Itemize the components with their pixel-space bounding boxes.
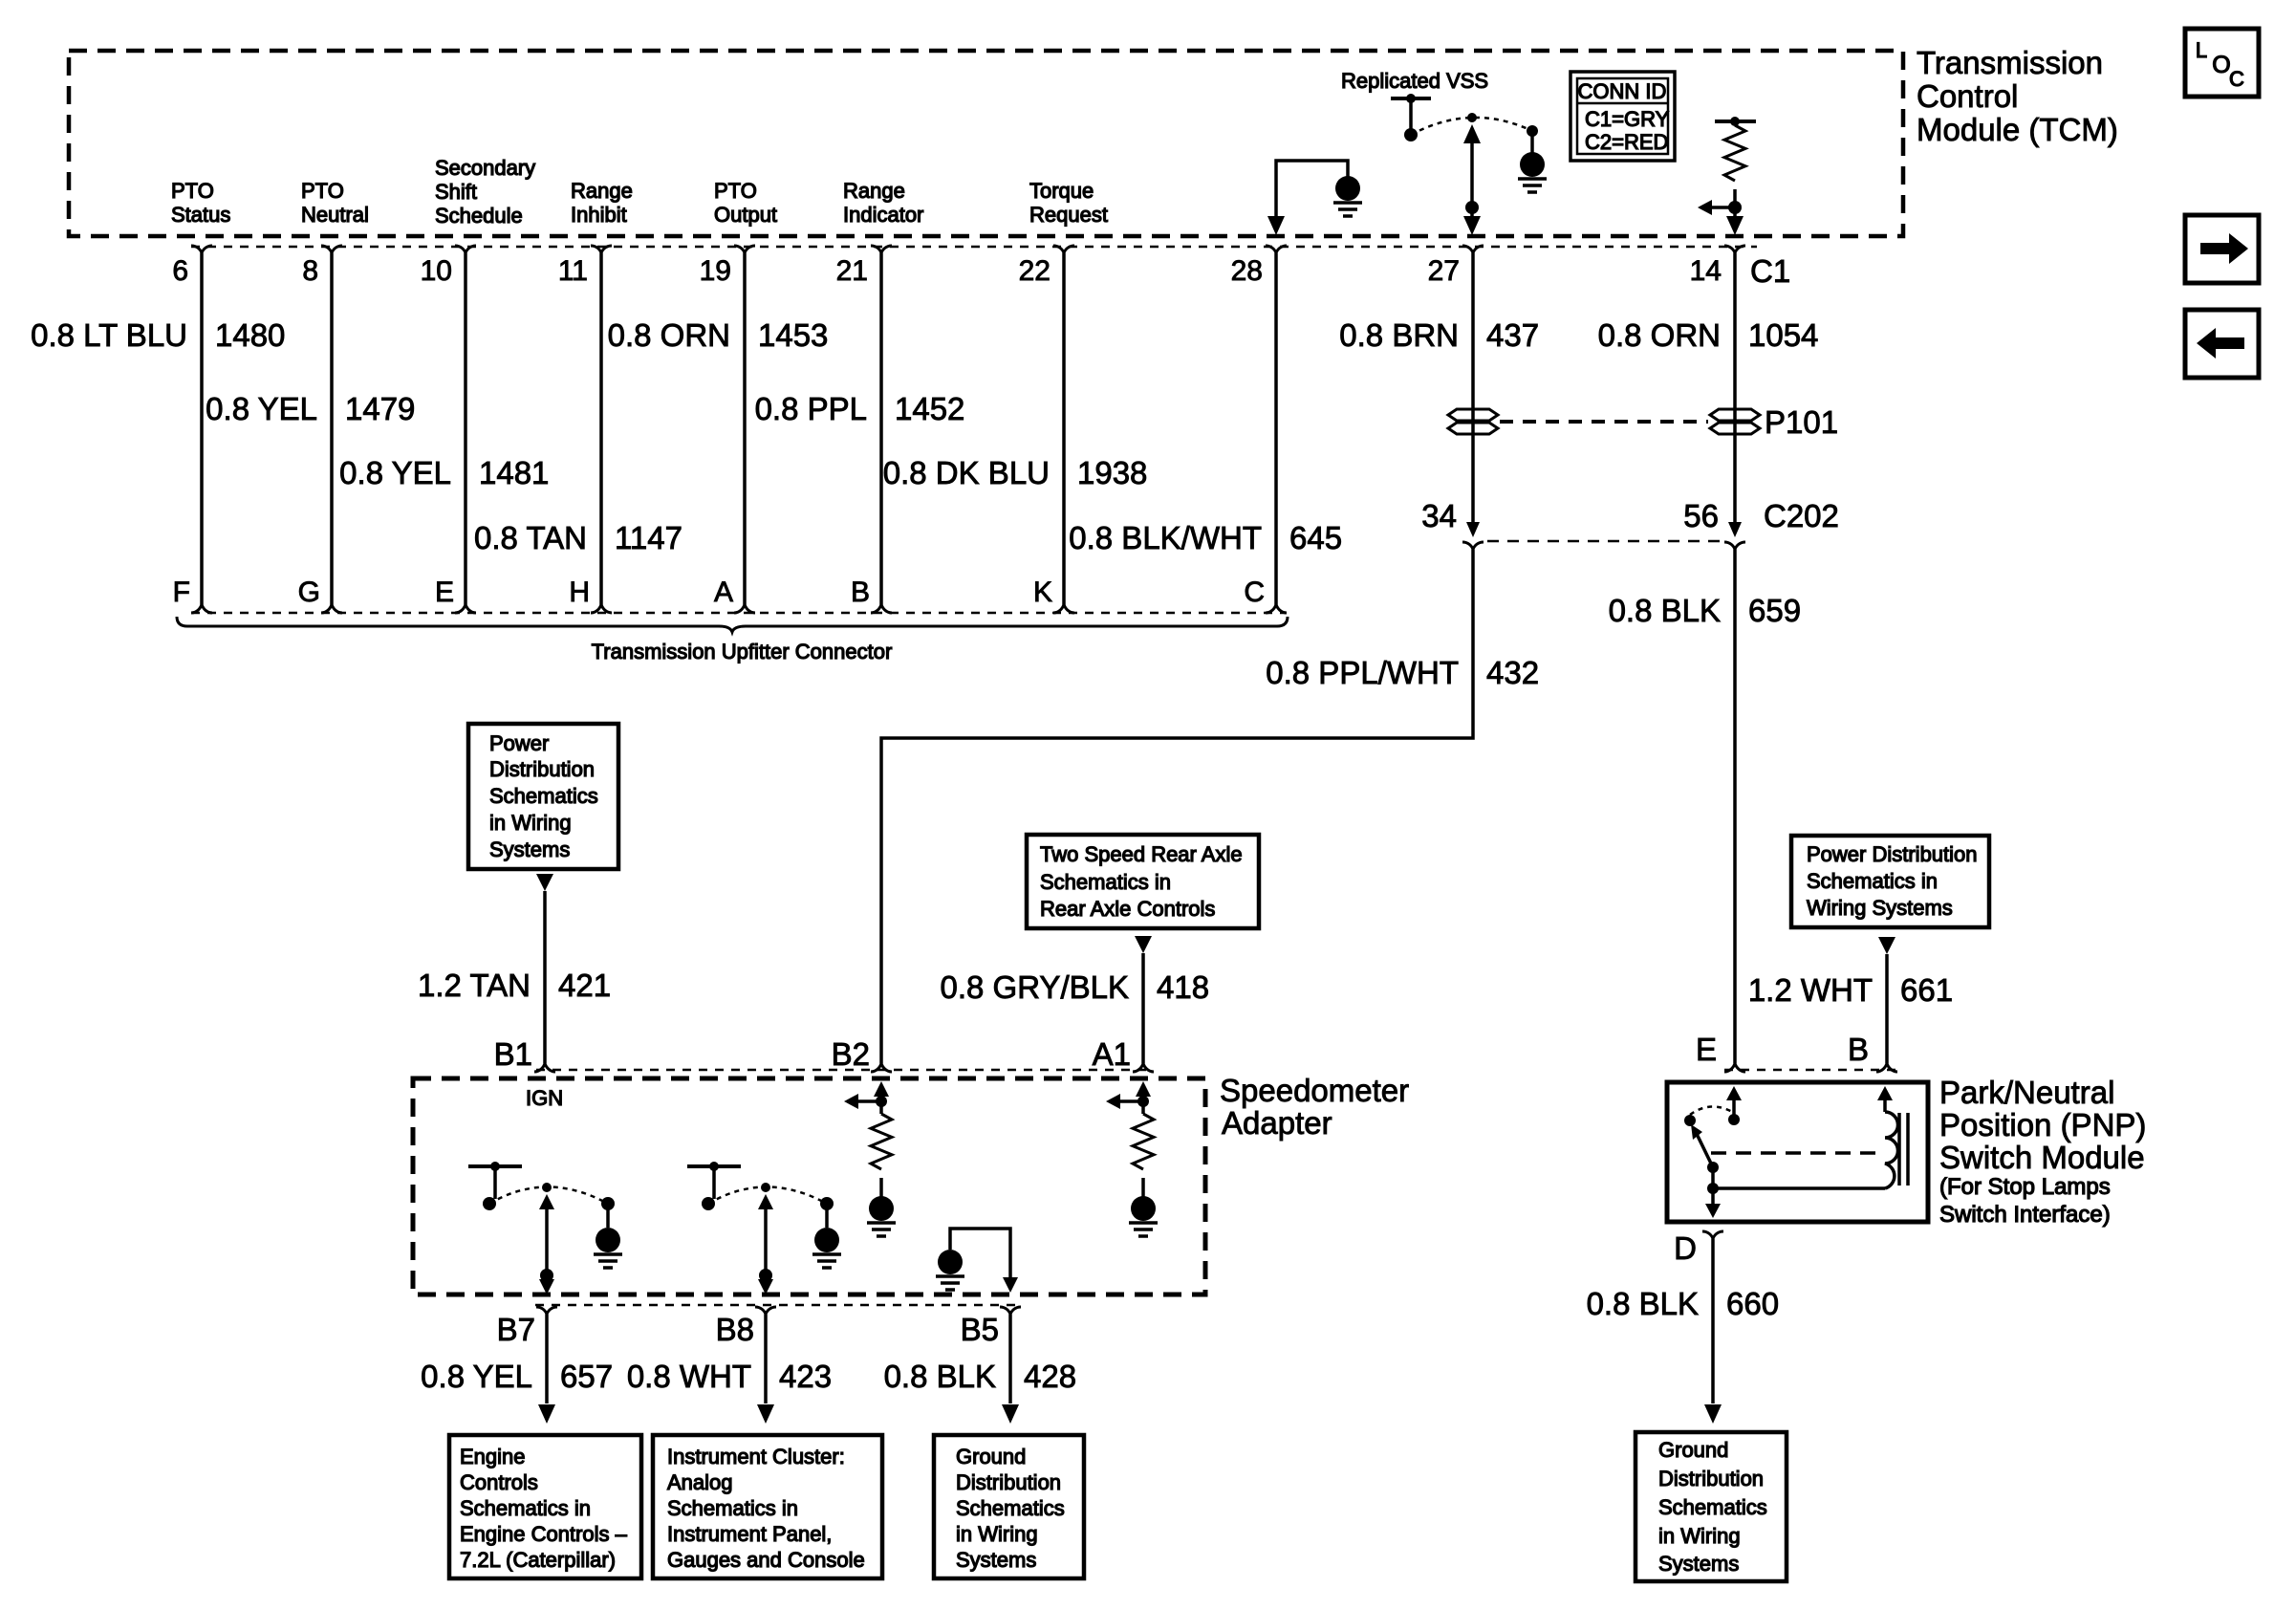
- svg-text:56: 56: [1683, 498, 1719, 533]
- connector: C202 pin 34 female Y: [1462, 542, 1484, 550]
- svg-text:Status: Status: [171, 203, 230, 227]
- svg-text:Distribution: Distribution: [1658, 1467, 1764, 1490]
- svg-text:0.8 YEL: 0.8 YEL: [206, 391, 317, 426]
- reference box: Power Distribution Schematics in Wiring Systems (left): [468, 724, 618, 869]
- svg-text:661: 661: [1900, 972, 1953, 1008]
- reference box: Power Distribution Schematics in Wiring Systems (right): [1791, 836, 1989, 927]
- node: lever pivot dot: [1707, 1162, 1719, 1173]
- wire: thin dashed Speedometer Adapter connector face line (top): [536, 1069, 1154, 1072]
- wire: up-arrow into module: [874, 1081, 889, 1097]
- wire: circuit 1054/659 from TCM pin 14 (0.8 ORN then 0.8 BLK): [1733, 253, 1737, 524]
- wire: stub from right dot to internal ground: [1530, 131, 1534, 153]
- wire: feed triangle from Two Speed Rear Axle box: [1135, 936, 1152, 953]
- wire: pin D down-arrow inside PNP: [1705, 1204, 1721, 1218]
- wire: feed triangle from right Power Distribution box: [1878, 937, 1895, 954]
- svg-text:Instrument Cluster:: Instrument Cluster:: [667, 1445, 845, 1469]
- wire: pin 27 double-ended arrow (up): [1463, 124, 1481, 143]
- wire: thin dashed PNP connector face line: [1724, 1069, 1897, 1072]
- wire: circuit 1453 from TCM pin 19 to upfitter pin A: [743, 253, 747, 604]
- connector pin 27 of TCM C1 (female Y): [1462, 246, 1484, 253]
- svg-text:27: 27: [1428, 255, 1460, 287]
- svg-text:1453: 1453: [758, 317, 828, 353]
- ground: internal ground: [814, 1228, 839, 1252]
- svg-text:B5: B5: [961, 1312, 999, 1347]
- label: pin 10 function Secondary Shift Schedule: [435, 156, 535, 228]
- wire: down-arrow to connector: [539, 1279, 554, 1295]
- wire: thin dashed upfitter connector face line (bottom): [191, 612, 1287, 615]
- wire: internal vertical: [879, 1089, 883, 1114]
- svg-text:Engine: Engine: [460, 1445, 526, 1469]
- wire: left signal arrow: [856, 1099, 881, 1103]
- wire: down-arrow to connector: [758, 1279, 773, 1295]
- wire: thin dashed C202 connector face line: [1487, 540, 1721, 543]
- svg-text:D: D: [1674, 1230, 1697, 1266]
- node: right arc end dot: [1527, 125, 1538, 137]
- node: right arc end dot: [601, 1197, 615, 1210]
- inductor: PNP coil winding: [1885, 1112, 1898, 1188]
- label: pin 21 function Range Indicator: [843, 179, 923, 227]
- svg-text:Systems: Systems: [1658, 1552, 1739, 1576]
- svg-text:B: B: [851, 577, 870, 608]
- wire: stub to internal ground: [606, 1208, 610, 1228]
- reference box: Ground Distribution Schematics in Wiring Systems (bottom middle): [934, 1435, 1084, 1578]
- svg-text:Replicated VSS: Replicated VSS: [1341, 69, 1488, 93]
- svg-text:1.2 WHT: 1.2 WHT: [1748, 972, 1873, 1008]
- svg-text:660: 660: [1726, 1286, 1779, 1321]
- reference box: Ground Distribution Schematics in Wiring Systems (right): [1635, 1432, 1787, 1581]
- svg-text:O: O: [2212, 52, 2230, 78]
- svg-text:P101: P101: [1765, 404, 1838, 440]
- label: TCM title: [1917, 45, 2118, 147]
- icon: arrow-left reference box: [2185, 310, 2259, 378]
- wire: pin 14 internal vertical below resistor: [1733, 189, 1737, 224]
- svg-text:IGN: IGN: [526, 1086, 563, 1110]
- connector pin B7 of Speedometer Adapter (bottom): [536, 1307, 557, 1315]
- resistor: internal pull-up on pin 14: [1715, 117, 1756, 181]
- label: pin 6 function PTO Status: [171, 179, 230, 227]
- wire: double arrow up: [539, 1194, 554, 1209]
- ground: internal ground on pin 28 branch: [1335, 176, 1360, 201]
- wire: pin E internal stub: [1732, 1093, 1736, 1115]
- connector pin A of Transmission Upfitter Connector: [734, 604, 755, 613]
- connector pin K of Transmission Upfitter Connector: [1053, 604, 1074, 613]
- svg-text:7.2L (Caterpillar): 7.2L (Caterpillar): [460, 1548, 616, 1572]
- wire: internal vertical to module edge: [764, 1202, 768, 1288]
- svg-text:Two Speed Rear Axle: Two Speed Rear Axle: [1040, 842, 1243, 866]
- svg-text:Systems: Systems: [489, 838, 570, 861]
- wire: circuit 659 (0.8 BLK) from C202-56 to PNP pin E: [1733, 550, 1737, 1063]
- reference box: Engine Controls Schematics in Engine Controls - 7.2L (Caterpillar): [449, 1435, 641, 1578]
- switch: relay contact T-bar: [468, 1162, 522, 1210]
- wire: double arrow up: [758, 1194, 773, 1209]
- node: junction dot: [876, 1096, 887, 1107]
- svg-text:B2: B2: [832, 1036, 870, 1072]
- connector pin B of PNP switch module: [1876, 1063, 1897, 1072]
- wire: pin E up-arrow inside PNP: [1726, 1086, 1742, 1100]
- svg-text:Range: Range: [843, 179, 905, 203]
- wire: circuit 1480 from TCM pin 6 to upfitter pin F: [200, 253, 204, 604]
- svg-text:PTO: PTO: [301, 179, 344, 203]
- wire: circuit 418 (0.8 GRY/BLK) to Speedometer Adapter A1: [1141, 953, 1145, 1063]
- wire: resistor to ground stub: [879, 1178, 883, 1197]
- wire: circuit 660 (0.8 BLK) from PNP pin D: [1711, 1239, 1715, 1403]
- svg-text:Distribution: Distribution: [956, 1470, 1061, 1494]
- resistor: internal pull-down: [1133, 1114, 1154, 1169]
- connector pin D of PNP switch module: [1702, 1231, 1723, 1239]
- svg-text:Analog: Analog: [667, 1470, 733, 1494]
- wire: circuit 657 (0.8 YEL) leaving Speedometer Adapter: [545, 1315, 549, 1403]
- svg-text:432: 432: [1486, 655, 1539, 690]
- svg-text:Ground: Ground: [956, 1445, 1026, 1469]
- svg-text:1938: 1938: [1077, 455, 1147, 490]
- svg-text:K: K: [1033, 577, 1052, 608]
- connector pin H of Transmission Upfitter Connector: [591, 604, 612, 613]
- module box: Park/Neutral Position (PNP) Switch Module: [1667, 1082, 1928, 1222]
- svg-text:Gauges and Console: Gauges and Console: [667, 1548, 865, 1572]
- svg-text:Power Distribution: Power Distribution: [1807, 842, 1978, 866]
- connector pin 14 of TCM C1 (female Y): [1724, 246, 1745, 253]
- svg-text:Shift: Shift: [435, 180, 477, 204]
- connector pin B8 of Speedometer Adapter (bottom): [755, 1307, 776, 1315]
- svg-text:10: 10: [421, 255, 452, 287]
- connector: C202 pin 34 male arrow: [1466, 522, 1480, 537]
- svg-text:Transmission: Transmission: [1917, 45, 2103, 80]
- connector: C202 pin 56 male arrow: [1728, 522, 1742, 537]
- svg-text:PTO: PTO: [714, 179, 757, 203]
- label: pin 11 function Range Inhibit: [571, 179, 633, 227]
- svg-text:19: 19: [700, 255, 731, 287]
- svg-text:C2=RED: C2=RED: [1585, 130, 1668, 154]
- connector pin 8 of TCM C1 (female Y): [321, 246, 342, 253]
- svg-text:0.8 WHT: 0.8 WHT: [627, 1359, 751, 1394]
- svg-text:0.8 ORN: 0.8 ORN: [608, 317, 730, 353]
- connector pin C of Transmission Upfitter Connector: [1266, 604, 1287, 613]
- svg-text:0.8 GRY/BLK: 0.8 GRY/BLK: [940, 969, 1129, 1005]
- wire: dashed linkage arc: [708, 1187, 827, 1205]
- wire: circuit 645 from TCM pin 28 to upfitter pin C: [1274, 253, 1278, 604]
- wire: pin 14 left signal arrow: [1711, 206, 1735, 209]
- connector pin 10 of TCM C1 (female Y): [455, 246, 476, 253]
- svg-text:Module (TCM): Module (TCM): [1917, 112, 2118, 147]
- connector pin B2 of Speedometer Adapter: [871, 1063, 892, 1072]
- connector: C202 pin 56 female Y: [1724, 542, 1745, 550]
- svg-text:0.8 BLK: 0.8 BLK: [884, 1359, 996, 1394]
- icon: arrow-right reference box: [2185, 215, 2259, 283]
- svg-text:Rear Axle Controls: Rear Axle Controls: [1040, 897, 1215, 921]
- connector pin 11 of TCM C1 (female Y): [591, 246, 612, 253]
- svg-text:Wiring Systems: Wiring Systems: [1807, 896, 1953, 920]
- wire: circuit 1479 from TCM pin 8 to upfitter pin G: [330, 253, 334, 604]
- node: junction dot on D wire: [1707, 1183, 1719, 1194]
- svg-text:Controls: Controls: [460, 1470, 538, 1494]
- svg-text:Secondary: Secondary: [435, 156, 535, 180]
- svg-text:0.8 BLK/WHT: 0.8 BLK/WHT: [1069, 520, 1262, 555]
- svg-text:B7: B7: [497, 1312, 535, 1347]
- svg-text:Position (PNP): Position (PNP): [1939, 1107, 2146, 1142]
- wire: thin dashed C1 connector face line (top): [191, 246, 1757, 249]
- svg-text:Inhibit: Inhibit: [571, 203, 627, 227]
- label: pin 8 function PTO Neutral: [301, 179, 369, 227]
- svg-text:B8: B8: [716, 1312, 754, 1347]
- connector: pass-through grommet P101 (right): [1710, 409, 1760, 421]
- ground: internal ground feeding B5: [938, 1250, 963, 1274]
- wire: circuit 661 (1.2 WHT) to PNP pin B: [1885, 954, 1889, 1063]
- svg-text:Schematics: Schematics: [1658, 1495, 1767, 1519]
- wire: thin dashed Speedometer Adapter connector face line (bottom): [535, 1304, 1023, 1307]
- connector pin E of PNP switch module: [1724, 1063, 1745, 1072]
- svg-text:Park/Neutral: Park/Neutral: [1939, 1075, 2114, 1110]
- wire: circuit 1147 from TCM pin 11 to upfitter pin H: [599, 253, 603, 604]
- node: arc apex dot on pin 27 line: [1467, 113, 1477, 122]
- label: pin 19 function PTO Output: [714, 179, 777, 227]
- node: junction dot: [759, 1269, 772, 1282]
- ground: internal ground: [596, 1228, 620, 1252]
- svg-text:0.8 ORN: 0.8 ORN: [1598, 317, 1721, 353]
- svg-text:1480: 1480: [215, 317, 285, 353]
- ground: internal ground right of VSS: [1520, 152, 1545, 177]
- svg-text:1479: 1479: [345, 391, 415, 426]
- svg-text:Range: Range: [571, 179, 633, 203]
- connector: pass-through grommet P101 (left): [1448, 409, 1498, 421]
- reference box: Two Speed Rear Axle Schematics in Rear Axle Controls: [1027, 835, 1259, 928]
- svg-text:B1: B1: [494, 1036, 532, 1072]
- reference box: Instrument Cluster Analog Schematics in Instrument Panel Gauges and Console: [653, 1435, 882, 1578]
- svg-text:Torque: Torque: [1029, 179, 1094, 203]
- label: PNP switch module title: [1939, 1075, 2146, 1228]
- node: junction dot: [540, 1269, 553, 1282]
- svg-text:A: A: [714, 577, 733, 608]
- node: junction dot: [1137, 1096, 1149, 1107]
- svg-text:1481: 1481: [479, 455, 549, 490]
- svg-text:Transmission Upfitter Connecto: Transmission Upfitter Connector: [592, 640, 893, 664]
- svg-text:Instrument Panel,: Instrument Panel,: [667, 1522, 832, 1546]
- svg-text:1054: 1054: [1748, 317, 1818, 353]
- svg-text:34: 34: [1421, 498, 1457, 533]
- wire: pin 27 internal vertical: [1470, 134, 1474, 224]
- svg-text:Control: Control: [1917, 78, 2018, 114]
- wire: circuit 423 (0.8 WHT) leaving Speedometer Adapter: [764, 1315, 768, 1403]
- wire: circuit 1938 from TCM pin 22 to upfitter pin K: [1062, 253, 1066, 604]
- svg-text:0.8 BLK: 0.8 BLK: [1587, 1286, 1699, 1321]
- wire: feed triangle from Power Distribution box: [536, 874, 553, 891]
- brace: Transmission Upfitter Connector grouping: [177, 617, 1288, 632]
- connector pin F of Transmission Upfitter Connector: [191, 604, 212, 613]
- wire: up-arrow into module: [1136, 1081, 1151, 1097]
- svg-text:0.8 YEL: 0.8 YEL: [339, 455, 451, 490]
- svg-text:Output: Output: [714, 203, 777, 227]
- svg-text:in Wiring: in Wiring: [489, 811, 572, 835]
- svg-text:Power: Power: [489, 731, 549, 755]
- wire: dashed linkage arc: [489, 1187, 608, 1205]
- wire: coil bottom to switch junction: [1713, 1186, 1885, 1190]
- connector pin 6 of TCM C1 (female Y): [191, 246, 212, 253]
- connector pin B1 of Speedometer Adapter: [534, 1063, 555, 1072]
- svg-text:1147: 1147: [615, 520, 682, 555]
- svg-text:22: 22: [1019, 255, 1051, 287]
- wire: dashed link between P101 grommets: [1500, 420, 1708, 424]
- resistor: internal pull-down: [871, 1114, 892, 1169]
- switch: replicated VSS contact (T-bar with dot): [1391, 94, 1431, 141]
- connector pin 19 of TCM C1 (female Y): [734, 246, 755, 253]
- wire: pin 14 down-arrow to connector: [1726, 216, 1744, 235]
- wire: internal vertical: [1141, 1089, 1145, 1114]
- svg-text:1452: 1452: [895, 391, 964, 426]
- wire: circuit 1481 from TCM pin 10 to upfitter pin E: [464, 253, 467, 604]
- node: left fixed contact dot: [1684, 1115, 1696, 1126]
- wire: pin 27 down-arrow to connector: [1463, 216, 1481, 235]
- svg-text:Request: Request: [1029, 203, 1108, 227]
- node: right arc end dot: [820, 1197, 834, 1210]
- svg-text:G: G: [298, 577, 320, 608]
- svg-text:0.8 PPL: 0.8 PPL: [755, 391, 867, 426]
- svg-text:C: C: [2229, 67, 2244, 91]
- svg-text:Schematics: Schematics: [956, 1496, 1065, 1520]
- svg-text:21: 21: [836, 255, 868, 287]
- svg-text:28: 28: [1231, 255, 1263, 287]
- svg-text:CONN ID: CONN ID: [1578, 79, 1667, 103]
- svg-text:14: 14: [1690, 255, 1722, 287]
- svg-text:657: 657: [560, 1359, 613, 1394]
- node: fixed contact dot on E wire: [1728, 1114, 1740, 1125]
- wire: pin B internal stub: [1883, 1093, 1887, 1112]
- svg-text:Speedometer: Speedometer: [1220, 1073, 1409, 1108]
- svg-text:Schedule: Schedule: [435, 204, 523, 228]
- svg-text:Adapter: Adapter: [1222, 1105, 1332, 1141]
- node: arc apex dot: [542, 1183, 552, 1192]
- label: Speedometer Adapter title: [1220, 1073, 1409, 1141]
- svg-text:Indicator: Indicator: [843, 203, 923, 227]
- svg-text:H: H: [569, 577, 590, 608]
- wire: B5 internal ground wire with elbow: [950, 1229, 1010, 1281]
- svg-text:C202: C202: [1764, 498, 1839, 533]
- svg-text:C: C: [1244, 577, 1265, 608]
- wire: pin 28 internal branch with elbow: [1276, 161, 1348, 222]
- svg-text:Schematics in: Schematics in: [667, 1496, 798, 1520]
- svg-text:0.8 DK BLU: 0.8 DK BLU: [883, 455, 1050, 490]
- svg-text:C1: C1: [1750, 253, 1790, 289]
- svg-text:437: 437: [1486, 317, 1539, 353]
- svg-text:Systems: Systems: [956, 1548, 1036, 1572]
- svg-text:E: E: [435, 577, 454, 608]
- module box: Transmission Control Module (TCM), dashed outline: [69, 51, 1903, 236]
- connector pin 22 of TCM C1 (female Y): [1053, 246, 1074, 253]
- switch: movable lever with arrowhead: [1697, 1134, 1713, 1167]
- wire: dashed linkage arc between contacts: [1690, 1106, 1734, 1115]
- wire: circuit 421 (1.2 TAN) to Speedometer Adapter B1: [543, 891, 547, 1063]
- svg-text:418: 418: [1157, 969, 1209, 1005]
- node: junction dot on pin 14 internal wire: [1728, 201, 1742, 214]
- svg-text:6: 6: [172, 255, 188, 287]
- svg-text:423: 423: [779, 1359, 832, 1394]
- svg-text:Neutral: Neutral: [301, 203, 369, 227]
- wire: pivot down to pin D: [1711, 1167, 1715, 1207]
- svg-text:PTO: PTO: [171, 179, 214, 203]
- wire: pin B up-arrow inside PNP: [1877, 1086, 1893, 1100]
- svg-text:C1=GRY: C1=GRY: [1585, 107, 1670, 131]
- wire: stub to internal ground: [825, 1208, 829, 1228]
- connector pin B of Transmission Upfitter Connector: [871, 604, 892, 613]
- svg-text:8: 8: [302, 255, 318, 287]
- svg-text:428: 428: [1024, 1359, 1076, 1394]
- wire: circuit 432 (0.8 PPL/WHT) from C202-34 to Speedometer Adapter B2: [881, 550, 1473, 1063]
- connector pin 21 of TCM C1 (female Y): [871, 246, 892, 253]
- module box: Speedometer Adapter, dashed outline: [413, 1078, 1205, 1295]
- svg-text:Engine Controls –: Engine Controls –: [460, 1522, 628, 1546]
- connector pin G of Transmission Upfitter Connector: [321, 604, 342, 613]
- wire: left signal arrow: [1118, 1099, 1143, 1103]
- svg-text:Distribution: Distribution: [489, 757, 595, 781]
- svg-text:in Wiring: in Wiring: [1658, 1524, 1741, 1548]
- wire: B5 down-arrow to connector: [1003, 1277, 1018, 1293]
- svg-text:B: B: [1848, 1032, 1869, 1067]
- svg-text:A1: A1: [1093, 1036, 1131, 1072]
- svg-text:(For Stop Lamps: (For Stop Lamps: [1939, 1174, 2111, 1200]
- wire: internal vertical to module edge: [545, 1202, 549, 1288]
- node: arc apex dot: [761, 1183, 770, 1192]
- svg-text:Ground: Ground: [1658, 1438, 1728, 1462]
- connector pin A1 of Speedometer Adapter: [1133, 1063, 1154, 1072]
- node: junction dot on pin 27 internal wire: [1465, 201, 1479, 214]
- label: pin 22 function Torque Request: [1029, 179, 1108, 227]
- ground: internal ground: [1131, 1196, 1156, 1221]
- svg-text:645: 645: [1289, 520, 1342, 555]
- wire: circuit 1452 from TCM pin 21 to upfitter pin B: [879, 253, 883, 604]
- svg-text:0.8 PPL/WHT: 0.8 PPL/WHT: [1266, 655, 1459, 690]
- svg-text:11: 11: [558, 255, 588, 287]
- svg-text:E: E: [1696, 1032, 1717, 1067]
- svg-text:659: 659: [1748, 593, 1801, 628]
- wire: circuit 437 from TCM pin 27 (0.8 BRN): [1471, 253, 1475, 524]
- wire: dashed mechanical link to coil: [1711, 1151, 1879, 1155]
- connector pin B5 of Speedometer Adapter (bottom): [1000, 1307, 1021, 1315]
- connector ID table: CONN ID C1=GRY C2=RED: [1570, 72, 1675, 161]
- svg-text:F: F: [173, 577, 190, 608]
- svg-text:L: L: [2196, 38, 2207, 62]
- svg-text:0.8 LT BLU: 0.8 LT BLU: [31, 317, 187, 353]
- wire: circuit 428 (0.8 BLK) leaving Speedometer Adapter: [1008, 1315, 1012, 1403]
- svg-text:421: 421: [558, 968, 611, 1003]
- svg-text:Schematics: Schematics: [489, 784, 598, 808]
- svg-text:0.8 TAN: 0.8 TAN: [474, 520, 587, 555]
- wire: pin 28 down-arrow to connector: [1267, 216, 1285, 235]
- connector pin E of Transmission Upfitter Connector: [455, 604, 476, 613]
- wire: resistor to ground stub: [1141, 1178, 1145, 1197]
- svg-text:Schematics in: Schematics in: [1040, 870, 1171, 894]
- svg-text:0.8 YEL: 0.8 YEL: [421, 1359, 532, 1394]
- svg-text:0.8 BRN: 0.8 BRN: [1339, 317, 1459, 353]
- svg-text:Schematics in: Schematics in: [1807, 869, 1938, 893]
- svg-text:Switch Module: Switch Module: [1939, 1140, 2145, 1175]
- icon: LOC reference box: [2185, 29, 2259, 97]
- switch: relay contact T-bar: [687, 1162, 741, 1210]
- svg-text:Switch Interface): Switch Interface): [1939, 1202, 2111, 1228]
- svg-text:1.2 TAN: 1.2 TAN: [418, 968, 531, 1003]
- wire: dashed linkage arc from VSS contact to pin 27 node: [1411, 118, 1532, 135]
- svg-text:0.8 BLK: 0.8 BLK: [1609, 593, 1721, 628]
- svg-text:Schematics in: Schematics in: [460, 1496, 591, 1520]
- ground: internal ground: [869, 1196, 894, 1221]
- inductor: coil core bars: [1897, 1113, 1901, 1186]
- svg-text:in Wiring: in Wiring: [956, 1522, 1038, 1546]
- connector pin 28 of TCM C1 (female Y): [1266, 246, 1287, 253]
